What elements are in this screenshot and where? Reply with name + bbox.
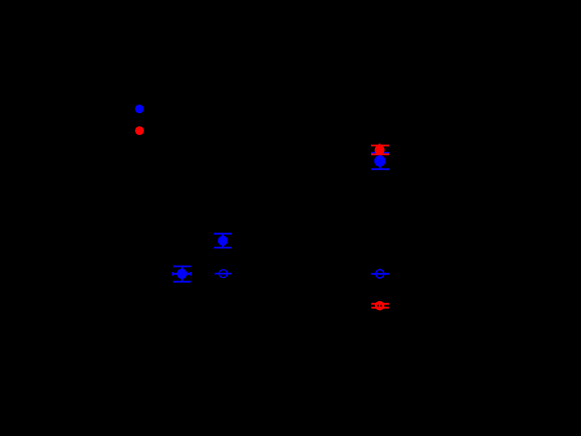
- red open-circle point with short y error bar and wide caps: [371, 302, 389, 309]
- red data point with y error bar: [371, 144, 389, 155]
- blue data point with y error bar (under red point): [371, 153, 389, 170]
- blue open-circle point with x error bar (left): [215, 270, 232, 278]
- blue data point with x and y error bars: [173, 266, 191, 281]
- legend marker blue series: [135, 105, 144, 114]
- blue data point with y error bar (middle): [214, 234, 232, 248]
- blue open-circle point with x error bar (right): [371, 269, 389, 279]
- legend marker red series: [135, 126, 144, 135]
